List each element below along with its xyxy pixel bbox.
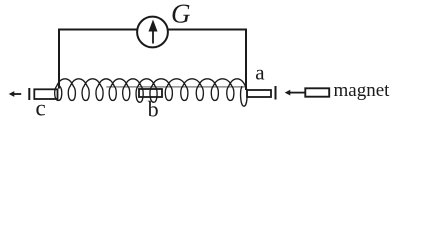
terminal a lug (right rectangle) — [247, 90, 271, 97]
wire: left vertical (c lug to top rail) — [58, 30, 60, 89]
motion arrow right — [289, 92, 305, 94]
svg-text:G: G — [171, 0, 191, 28]
terminal b lug (middle rectangle) — [139, 89, 162, 97]
terminal c lug (left rectangle) — [34, 89, 57, 99]
svg-text:c: c — [36, 96, 46, 121]
svg-text:magnet: magnet — [334, 80, 391, 101]
wire: top rail through galvanometer — [58, 29, 247, 31]
svg-text:b: b — [148, 97, 159, 121]
magnet body — [305, 88, 329, 96]
end stop bar left — [28, 88, 30, 100]
galvanometer needle — [152, 30, 154, 44]
coil L1 — [55, 79, 247, 106]
galvanometer G body — [137, 17, 168, 48]
motion arrow left — [14, 93, 22, 95]
core line (gray) — [106, 86, 246, 88]
end stop bar right — [275, 86, 277, 100]
wire: right vertical (top rail to a lug) — [245, 29, 247, 91]
svg-text:a: a — [255, 61, 265, 85]
